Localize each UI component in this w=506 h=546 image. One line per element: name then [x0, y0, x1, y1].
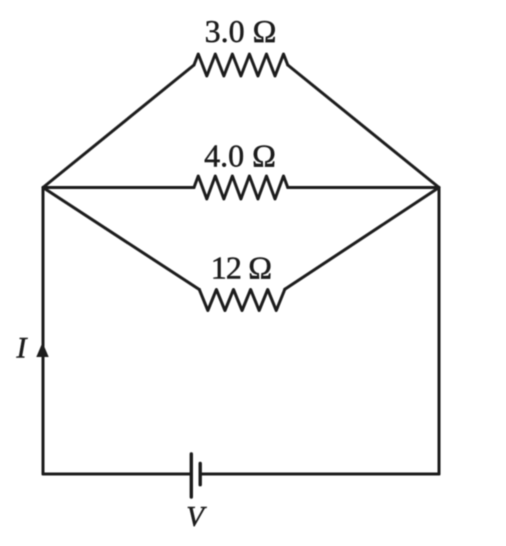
resistor R1 3.0 ohm zigzag	[194, 54, 288, 76]
wire right vertical	[438, 188, 441, 475]
svg-text:4.0 Ω: 4.0 Ω	[204, 138, 276, 174]
wire left vertical	[42, 188, 45, 475]
battery V long plate	[190, 454, 193, 497]
wire node A to R3 left	[43, 188, 199, 290]
wire bottom left to battery	[43, 473, 191, 476]
resistor R2 4.0 ohm zigzag	[194, 176, 288, 199]
svg-text:12 Ω: 12 Ω	[211, 250, 272, 286]
resistor R3 12 ohm zigzag	[199, 289, 284, 310]
battery V short plate	[198, 464, 201, 485]
wire node A to R1 left	[43, 65, 194, 188]
svg-text:3.0 Ω: 3.0 Ω	[205, 13, 277, 49]
wire bottom battery to right	[201, 473, 439, 476]
wire R1 right to node B	[288, 65, 439, 188]
current arrow on left wire	[36, 343, 48, 358]
wire R3 right to node B	[285, 188, 439, 290]
wire R2 right to node B	[288, 186, 439, 189]
svg-text:I: I	[16, 332, 29, 365]
svg-text:V: V	[186, 501, 207, 533]
wire node A to R2 left	[43, 186, 194, 189]
